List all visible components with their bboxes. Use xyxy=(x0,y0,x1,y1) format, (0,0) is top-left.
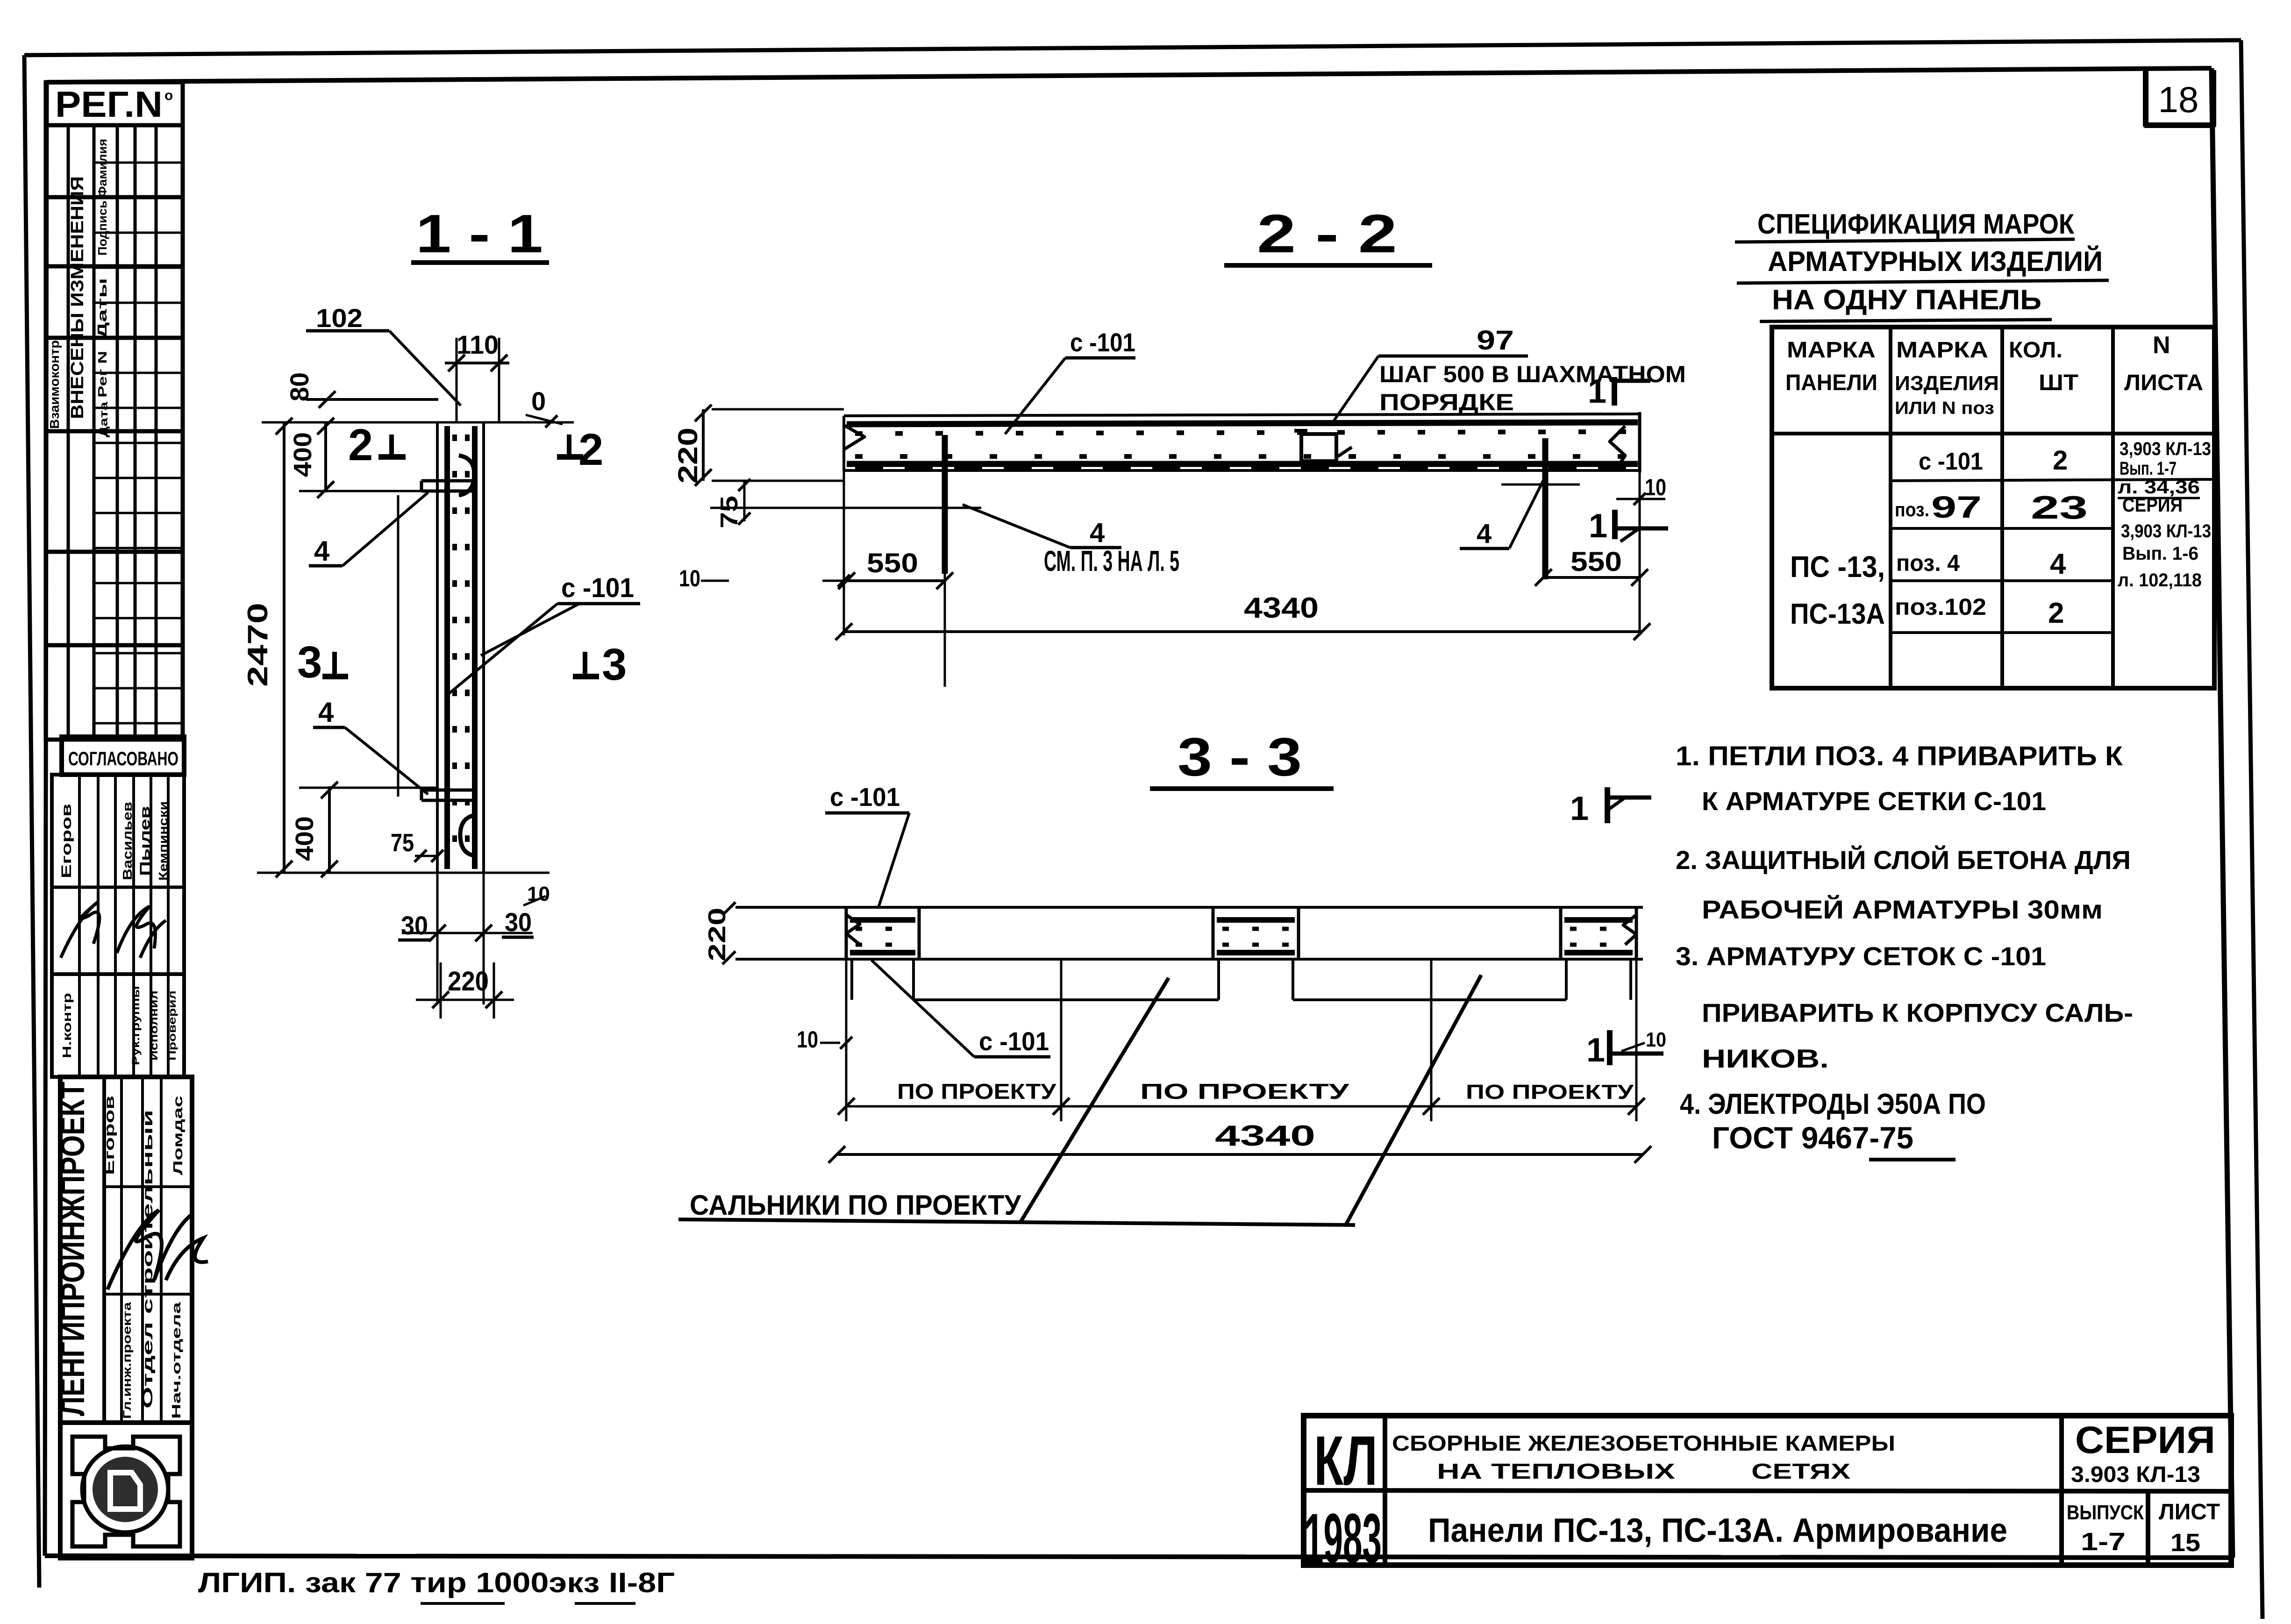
svg-text:РАБОЧЕЙ АРМАТУРЫ 30мм: РАБОЧЕЙ АРМАТУРЫ 30мм xyxy=(1702,895,2103,924)
svg-text:ПО ПРОЕКТУ: ПО ПРОЕКТУ xyxy=(1466,1081,1634,1104)
loop box pos.97 xyxy=(1301,434,1336,461)
svg-text:Н.контр: Н.контр xyxy=(60,993,74,1058)
svg-text:2: 2 xyxy=(2053,445,2068,476)
svg-text:Егоров: Егоров xyxy=(102,1096,117,1175)
svg-text:4: 4 xyxy=(1477,519,1492,549)
loop bar pos.4 left xyxy=(942,435,948,574)
svg-text:с -101: с -101 xyxy=(979,1026,1049,1056)
svg-text:с -101: с -101 xyxy=(830,782,900,812)
svg-text:3.903 КЛ-13: 3.903 КЛ-13 xyxy=(2071,1462,2200,1487)
LENGIPROINZHPROEKT block xyxy=(60,1077,192,1423)
svg-text:ПС -13,: ПС -13, xyxy=(1790,550,1885,584)
svg-text:НА ОДНУ ПАНЕЛЬ: НА ОДНУ ПАНЕЛЬ xyxy=(1772,284,2041,315)
bottom extension line xyxy=(257,872,550,874)
svg-text:1: 1 xyxy=(1588,373,1606,410)
svg-text:ЛГИП. зак 77 тир 1000экз II: ЛГИП. зак 77 тир 1000экз II-8Г xyxy=(198,1567,675,1598)
svg-text:3: 3 xyxy=(602,640,627,690)
lifting loop pos.4 bottom xyxy=(421,789,477,792)
salnik box 2 below-slab sides xyxy=(1217,959,1220,1000)
svg-text:97: 97 xyxy=(1477,325,1514,356)
extension line under slab right xyxy=(1501,484,1580,486)
title block grid xyxy=(1304,1416,2231,1565)
svg-text:с -101: с -101 xyxy=(561,573,634,603)
svg-text:1: 1 xyxy=(1570,790,1589,827)
svg-text:Гл.инж.проекта: Гл.инж.проекта xyxy=(121,1302,134,1419)
svg-text:СЕРИЯ: СЕРИЯ xyxy=(2122,494,2183,516)
svg-text:Васильев: Васильев xyxy=(120,802,135,880)
svg-text:3 - 3: 3 - 3 xyxy=(1178,727,1302,787)
svg-text:3,903 КЛ-13: 3,903 КЛ-13 xyxy=(2121,521,2211,541)
svg-text:ЛИСТА: ЛИСТА xyxy=(2124,370,2203,395)
slab 3-3 outline xyxy=(735,906,1643,909)
svg-text:поз. 4: поз. 4 xyxy=(1896,550,1960,576)
svg-text:СОГЛАСОВАНО: СОГЛАСОВАНО xyxy=(68,748,178,769)
svg-text:400: 400 xyxy=(289,432,317,477)
svg-text:Рук.группы: Рук.группы xyxy=(130,986,142,1065)
salnik box 2 xyxy=(1212,907,1215,959)
svg-text:1: 1 xyxy=(1586,1032,1605,1069)
loop bar pos.4 right xyxy=(1542,438,1549,579)
svg-text:1983: 1983 xyxy=(1304,1499,1382,1577)
svg-text:К АРМАТУРЕ СЕТКИ С-101: К АРМАТУРЕ СЕТКИ С-101 xyxy=(1702,786,2046,816)
svg-text:РЕГ.N: РЕГ.N xyxy=(55,84,163,125)
svg-text:СЕРИЯ: СЕРИЯ xyxy=(2075,1419,2215,1461)
svg-text:1. ПЕТЛИ ПОЗ. 4 ПРИВАРИТЬ К: 1. ПЕТЛИ ПОЗ. 4 ПРИВАРИТЬ К xyxy=(1676,741,2123,771)
svg-text:СЕТЯХ: СЕТЯХ xyxy=(1751,1459,1850,1483)
svg-text:Рег N: Рег N xyxy=(95,351,109,398)
svg-text:1: 1 xyxy=(1589,507,1607,545)
lifting loop pos.4 top xyxy=(421,479,477,483)
svg-text:220: 220 xyxy=(448,966,489,997)
leader diagonal B xyxy=(1346,975,1481,1225)
reg-number stamp table xyxy=(46,82,183,125)
svg-text:поз.: поз. xyxy=(1895,499,1929,520)
top extension line xyxy=(262,421,574,424)
svg-text:Пылев: Пылев xyxy=(137,806,153,876)
svg-text:2: 2 xyxy=(2048,597,2064,629)
slab 2-2 outline xyxy=(844,414,1640,416)
svg-text:18: 18 xyxy=(2158,79,2199,120)
svg-text:o: o xyxy=(164,88,173,103)
svg-text:3: 3 xyxy=(297,637,322,687)
svg-text:Дата: Дата xyxy=(98,401,110,437)
break zigzag left salnik1 xyxy=(846,915,860,944)
svg-text:Кемпински: Кемпински xyxy=(156,801,170,881)
sheet outer border xyxy=(24,40,2241,55)
role titles row xyxy=(52,974,184,1077)
svg-text:Нач.отдела: Нач.отдела xyxy=(169,1302,183,1419)
soglasovano header xyxy=(62,737,184,775)
svg-text:3. АРМАТУРУ СЕТОК С -101: 3. АРМАТУРУ СЕТОК С -101 xyxy=(1676,941,2046,971)
svg-text:4: 4 xyxy=(2050,548,2066,580)
salnik box 3 xyxy=(1559,907,1563,959)
svg-text:2: 2 xyxy=(348,420,373,470)
svg-text:САЛЬНИКИ ПО ПРОЕКТУ: САЛЬНИКИ ПО ПРОЕКТУ xyxy=(690,1190,1021,1221)
svg-text:ИЛИ N поз: ИЛИ N поз xyxy=(1895,399,1994,418)
svg-text:10: 10 xyxy=(1646,1028,1666,1051)
svg-text:400: 400 xyxy=(291,816,319,861)
svg-text:ИЗДЕЛИЯ: ИЗДЕЛИЯ xyxy=(1895,372,1999,395)
svg-text:4340: 4340 xyxy=(1244,592,1319,624)
svg-text:2470: 2470 xyxy=(242,603,273,687)
svg-text:3,903 КЛ-13: 3,903 КЛ-13 xyxy=(2120,439,2211,459)
svg-text:4340: 4340 xyxy=(1215,1120,1315,1152)
slab 2-2 right end break xyxy=(1638,412,1642,472)
svg-text:30: 30 xyxy=(401,911,428,940)
svg-text:ПО ПРОЕКТУ: ПО ПРОЕКТУ xyxy=(1140,1079,1350,1104)
svg-text:Даты: Даты xyxy=(95,278,109,339)
panel mesh s-101 left xyxy=(444,426,450,869)
svg-text:220: 220 xyxy=(704,908,731,962)
svg-text:НА ТЕПЛОВЫХ: НА ТЕПЛОВЫХ xyxy=(1437,1459,1675,1483)
svg-text:с -101: с -101 xyxy=(1070,328,1135,357)
top rebar hook xyxy=(459,456,474,495)
svg-text:102: 102 xyxy=(316,303,363,333)
salnik box 3 below-slab sides xyxy=(1565,959,1568,1000)
svg-text:Отдел строительный: Отдел строительный xyxy=(140,1110,156,1409)
svg-text:550: 550 xyxy=(1570,547,1622,577)
svg-text:10: 10 xyxy=(797,1026,818,1053)
loop guide line 1-1 xyxy=(397,495,400,797)
svg-text:ШТ: ШТ xyxy=(2039,370,2078,395)
svg-text:4: 4 xyxy=(1090,518,1105,548)
page number box 18 xyxy=(2146,69,2213,125)
svg-text:Ломдас: Ломдас xyxy=(171,1096,185,1175)
svg-text:10: 10 xyxy=(1645,474,1666,500)
svg-text:ПС-13А: ПС-13А xyxy=(1790,598,1885,630)
signature squiggles row1 xyxy=(61,902,100,958)
panel body verticals xyxy=(436,422,439,873)
svg-text:2. ЗАЩИТНЫЙ СЛОЙ БЕТОНА ДЛЯ: 2. ЗАЩИТНЫЙ СЛОЙ БЕТОНА ДЛЯ xyxy=(1676,845,2131,875)
salnik box 1 xyxy=(845,907,848,959)
svg-text:Взаимоконтр: Взаимоконтр xyxy=(47,340,62,429)
svg-text:СПЕЦИФИКАЦИЯ МАРОК: СПЕЦИФИКАЦИЯ МАРОК xyxy=(1757,208,2074,240)
sheet inner frame xyxy=(47,68,2212,82)
svg-text:23: 23 xyxy=(2031,489,2088,526)
svg-text:Егоров: Егоров xyxy=(59,804,74,878)
svg-text:97: 97 xyxy=(1931,490,1982,524)
svg-text:4. ЭЛЕКТРОДЫ Э50А ПО: 4. ЭЛЕКТРОДЫ Э50А ПО xyxy=(1680,1088,1986,1120)
svg-text:л. 102,118: л. 102,118 xyxy=(2118,570,2202,591)
svg-text:КЛ: КЛ xyxy=(1314,1421,1377,1500)
break zigzag right salnik3 xyxy=(1623,915,1636,945)
panel mesh s-101 right xyxy=(472,426,478,869)
bottom mesh s-101 2-2 xyxy=(847,461,1638,467)
svg-text:550: 550 xyxy=(867,548,918,578)
bottom rebar hook xyxy=(460,815,474,855)
svg-text:ВЫПУСК: ВЫПУСК xyxy=(2067,1501,2144,1524)
svg-text:75: 75 xyxy=(391,829,414,857)
dims below panel xyxy=(436,873,439,1004)
svg-text:АРМАТУРНЫХ ИЗДЕЛИЙ: АРМАТУРНЫХ ИЗДЕЛИЙ xyxy=(1768,246,2103,277)
svg-text:СМ. П. 3 НА Л. 5: СМ. П. 3 НА Л. 5 xyxy=(1044,545,1179,577)
svg-text:220: 220 xyxy=(673,427,703,484)
section mark 3 right xyxy=(583,652,587,675)
svg-text:ГОСТ 9467-75: ГОСТ 9467-75 xyxy=(1712,1120,1913,1155)
svg-text:0: 0 xyxy=(531,386,546,416)
svg-text:1-7: 1-7 xyxy=(2081,1528,2126,1556)
svg-text:2: 2 xyxy=(578,425,603,475)
svg-text:ПРИВАРИТЬ К КОРПУСУ САЛЬ-: ПРИВАРИТЬ К КОРПУСУ САЛЬ- xyxy=(1702,998,2133,1027)
spec table grid xyxy=(1772,327,2214,688)
svg-text:Вып. 1-7: Вып. 1-7 xyxy=(2120,458,2177,479)
svg-text:Исполнил: Исполнил xyxy=(148,990,160,1061)
svg-text:МАРКА: МАРКА xyxy=(1896,338,1988,363)
svg-text:Вып. 1-6: Вып. 1-6 xyxy=(2122,543,2198,564)
svg-text:ПО ПРОЕКТУ: ПО ПРОЕКТУ xyxy=(897,1079,1057,1104)
svg-text:10: 10 xyxy=(679,565,700,591)
svg-text:ШАГ 500 В ШАХМАТНОМ: ШАГ 500 В ШАХМАТНОМ xyxy=(1379,361,1686,387)
svg-text:с -101: с -101 xyxy=(1919,448,1983,475)
svg-text:4: 4 xyxy=(314,535,330,567)
salnik box 1 below-slab sides xyxy=(850,959,853,1000)
svg-text:80: 80 xyxy=(285,372,314,401)
svg-text:поз.102: поз.102 xyxy=(1895,594,1986,620)
section mark 2 right xyxy=(567,434,571,456)
svg-text:МАРКА: МАРКА xyxy=(1787,338,1876,363)
leader diagonal A xyxy=(1021,978,1169,1221)
svg-text:ПАНЕЛИ: ПАНЕЛИ xyxy=(1785,370,1877,395)
svg-text:Подпись Фамилия: Подпись Фамилия xyxy=(95,139,109,256)
svg-text:НИКОВ.: НИКОВ. xyxy=(1702,1044,1829,1073)
svg-text:15: 15 xyxy=(2170,1529,2200,1557)
svg-text:ЛИСТ: ЛИСТ xyxy=(2159,1500,2220,1524)
extension line under slab left xyxy=(710,507,981,509)
svg-text:ЛЕНГИПРОИНЖПРОЕКТ: ЛЕНГИПРОИНЖПРОЕКТ xyxy=(54,1082,92,1416)
top mesh s-101 2-2 xyxy=(847,422,1638,424)
signature names grid xyxy=(52,775,184,974)
svg-text:1 - 1: 1 - 1 xyxy=(416,203,543,264)
svg-text:Проверил: Проверил xyxy=(166,990,178,1061)
svg-text:4: 4 xyxy=(318,697,334,728)
svg-text:ВНЕСЕНЫ ИЗМЕНЕНИЯ: ВНЕСЕНЫ ИЗМЕНЕНИЯ xyxy=(68,176,87,419)
svg-text:Панели ПС-13, ПС-13А. Армирова: Панели ПС-13, ПС-13А. Армирование xyxy=(1428,1512,2007,1549)
svg-text:СБОРНЫЕ ЖЕЛЕЗОБЕТОННЫЕ КАМЕР: СБОРНЫЕ ЖЕЛЕЗОБЕТОННЫЕ КАМЕРЫ xyxy=(1392,1431,1895,1455)
institute logo box xyxy=(60,1423,192,1558)
dim 2470 xyxy=(283,422,285,873)
stamp signatures xyxy=(107,1210,192,1289)
svg-text:2 - 2: 2 - 2 xyxy=(1257,203,1397,264)
svg-text:ПОРЯДКЕ: ПОРЯДКЕ xyxy=(1379,389,1514,415)
svg-text:N: N xyxy=(2153,332,2170,359)
slab 2-2 left break mark xyxy=(844,425,864,449)
svg-text:КОЛ.: КОЛ. xyxy=(2009,338,2063,363)
lines joining salniks below slab xyxy=(914,998,1219,1001)
